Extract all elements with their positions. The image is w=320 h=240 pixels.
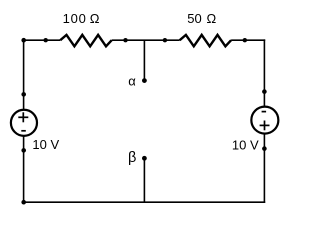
voltage source V2 pin dot top <box>262 89 267 94</box>
svg-text:Ω: Ω <box>90 11 100 26</box>
junction dot: bottom-left corner <box>21 200 26 205</box>
voltage source V2 minus sign <box>262 111 267 113</box>
voltage source V2 pin dot bottom <box>262 146 267 151</box>
svg-text:10 V: 10 V <box>232 137 259 152</box>
resistor R1 100 ohm zigzag <box>60 35 111 46</box>
wire: right rail upper (top corner to V2) <box>263 39 265 106</box>
junction dot: top-left corner <box>21 38 26 43</box>
wire: top rail left segment <box>23 39 60 41</box>
wire: top rail middle segment <box>112 39 180 41</box>
resistor R1 pin dot right <box>123 38 127 42</box>
svg-text:β: β <box>128 150 136 166</box>
node beta dot <box>142 156 147 161</box>
node alpha dot <box>142 78 147 83</box>
wire: bottom rail <box>23 201 265 203</box>
svg-text:α: α <box>128 73 136 88</box>
voltage source V1 circle (left) <box>11 110 37 136</box>
resistor R2 pin dot left <box>163 38 167 42</box>
voltage source V1 pin dot bottom <box>21 148 26 153</box>
svg-text:100: 100 <box>63 11 87 26</box>
wire: top rail right segment <box>231 39 265 41</box>
resistor R2 50 ohm zigzag <box>180 35 231 46</box>
svg-text:10 V: 10 V <box>32 137 59 152</box>
wire: left rail lower (V1 to bottom corner) <box>23 136 25 203</box>
voltage source V2 circle (right) <box>251 107 278 134</box>
wire: left rail upper (top corner to V1) <box>23 39 25 109</box>
voltage source V1 minus sign <box>21 130 26 132</box>
voltage source V2 plus sign <box>260 121 270 131</box>
wire: right rail lower (V2 to bottom corner) <box>263 134 265 203</box>
wire: stub from node beta to bottom rail <box>143 158 145 202</box>
resistor R2 pin dot right <box>243 38 247 42</box>
resistor R1 pin dot left <box>44 38 48 42</box>
wire: stub from top rail to node alpha <box>143 40 145 80</box>
svg-text:50: 50 <box>187 11 201 26</box>
voltage source V1 plus sign <box>18 112 28 122</box>
svg-text:Ω: Ω <box>207 11 217 26</box>
voltage source V1 pin dot top <box>21 92 26 97</box>
